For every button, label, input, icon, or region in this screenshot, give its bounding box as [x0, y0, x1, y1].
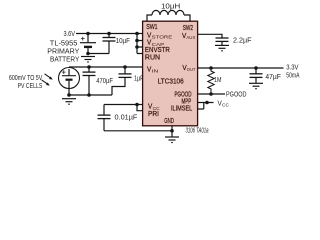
svg-text:0.01µF: 0.01µF — [115, 113, 138, 122]
wire input ground rail — [69, 94, 112, 96]
svg-text:BATTERY: BATTERY — [50, 54, 79, 63]
node VCC junction — [135, 103, 139, 107]
node GND junction — [170, 129, 174, 133]
node 470uF top junction — [87, 65, 91, 69]
wire VAUX to 2.2uF — [198, 34, 222, 38]
svg-text:RUN: RUN — [145, 53, 160, 62]
svg-text:IN: IN — [152, 68, 159, 73]
node bus VSTORE junction — [135, 32, 139, 36]
resistor R1 1M — [208, 68, 214, 94]
wire PGOOD line — [198, 93, 225, 95]
capacitor C4 0.01uF — [98, 105, 111, 131]
svg-text:LTC3106: LTC3106 — [158, 76, 184, 85]
node 1M top junction — [209, 66, 213, 70]
node PGOOD junction — [209, 92, 213, 96]
node bus ENVSTR junction — [135, 45, 139, 49]
wire MPP ILIMSEL to VCC — [198, 103, 214, 110]
svg-text:+: + — [81, 34, 85, 43]
svg-text:3106 TA01a: 3106 TA01a — [186, 126, 209, 135]
wire PRI tie — [137, 105, 143, 111]
capacitor C1 10uF — [103, 34, 116, 54]
ground GND pin — [165, 137, 179, 143]
wire VOUT rail 3.3V 50mA — [198, 67, 284, 69]
battery BT1 3.6V TL-5955 — [80, 34, 96, 54]
node battery negative junction — [86, 52, 90, 56]
capacitor C5 2.2uF — [216, 38, 229, 45]
ground battery — [81, 57, 95, 63]
wire battery bottom to 10uF bottom — [88, 53, 109, 55]
capacitor C3 1uF — [112, 67, 132, 95]
node solar ground junction — [67, 93, 71, 97]
ground 2.2uF — [215, 45, 229, 50]
solar cell PV source — [59, 67, 80, 88]
wire solar bottom to ground rail — [68, 89, 70, 96]
node battery rail junction — [86, 32, 90, 36]
svg-text:+: + — [62, 67, 66, 76]
svg-text:PGOOD: PGOOD — [226, 90, 247, 99]
svg-text:3.6V: 3.6V — [64, 29, 76, 38]
inductor L1 10uH — [147, 10, 190, 21]
svg-text:1M: 1M — [214, 75, 222, 84]
wire left pin bus VSTORE VCAP ENVSTR RUN — [137, 34, 143, 54]
wire 0.01uF ground line to GND pin — [104, 130, 172, 132]
wire GND pin stub — [171, 126, 173, 137]
wire battery rail 3.6V to VSTORE pin — [76, 33, 143, 35]
svg-text:50mA: 50mA — [286, 70, 299, 79]
svg-text:OUT: OUT — [187, 67, 196, 72]
capacitor C2 470uF — [83, 67, 96, 95]
node 10uF top junction — [107, 32, 111, 36]
svg-text:PRI: PRI — [148, 109, 159, 118]
node 47uF top junction — [254, 66, 258, 70]
op-amp U1 LTC3106 IC body — [143, 21, 198, 126]
svg-text:PV CELLS: PV CELLS — [18, 81, 43, 90]
svg-text:10µF: 10µF — [116, 36, 131, 45]
node bus VCAP junction — [135, 39, 139, 43]
ground 47uF — [249, 83, 263, 88]
svg-text:AUX: AUX — [186, 35, 195, 40]
svg-text:47µF: 47µF — [265, 72, 281, 81]
svg-text:STORE: STORE — [152, 35, 173, 40]
ground solar input — [62, 99, 76, 105]
node 1uF top junction — [123, 65, 127, 69]
svg-text:GND: GND — [164, 116, 174, 125]
svg-text:1µF: 1µF — [134, 74, 144, 83]
wire VIN rail — [69, 66, 143, 68]
wire solar illumination arrows — [42, 74, 53, 86]
svg-text:470µF: 470µF — [96, 76, 113, 85]
capacitor C6 47uF — [250, 68, 263, 83]
svg-text:10µH: 10µH — [161, 1, 180, 10]
wire VCC PRI line — [104, 104, 143, 106]
node 470uF bottom junction — [87, 93, 91, 97]
svg-text:CC: CC — [222, 103, 229, 108]
svg-text:2.2µF: 2.2µF — [233, 36, 252, 45]
node MPP junction — [205, 101, 209, 105]
svg-text:ILIMSEL: ILIMSEL — [171, 103, 192, 112]
